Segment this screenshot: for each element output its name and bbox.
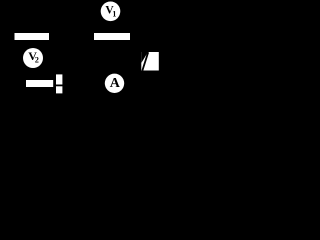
svg-text:2: 2 bbox=[35, 56, 39, 65]
svg-text:A: A bbox=[110, 76, 121, 91]
svg-text:1: 1 bbox=[112, 10, 116, 19]
